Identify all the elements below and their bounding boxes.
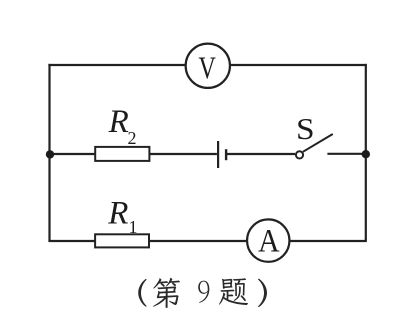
svg-text:S: S — [296, 111, 315, 146]
caption (第 9 题) — [138, 278, 267, 308]
wire: right vertical rail — [365, 64, 367, 241]
caption glyph （ — [138, 279, 146, 307]
node: right junction dot — [362, 150, 370, 158]
voltmeter V — [186, 44, 230, 88]
svg-text:R: R — [107, 195, 128, 231]
resistor R2 (box) — [95, 147, 149, 161]
svg-text:1: 1 — [129, 217, 138, 237]
wire: R2 to battery positive plate — [150, 153, 217, 155]
svg-text:R: R — [108, 104, 129, 140]
battery cell: short negative plate — [225, 149, 227, 160]
wire: top-left horizontal (left corner to voltmeter) — [48, 64, 185, 66]
switch S: pivot circle — [296, 151, 303, 158]
label R1 — [107, 195, 137, 237]
wire: bottom-left horizontal (left corner to R1) — [48, 240, 95, 242]
svg-text:2: 2 — [128, 128, 137, 148]
wire: ammeter to right corner — [289, 240, 366, 242]
caption glyph 9 — [198, 281, 209, 303]
resistor R1 (box) — [95, 234, 149, 247]
switch S: lever arm — [303, 134, 333, 152]
wire: top-right horizontal (voltmeter to right corner) — [230, 64, 366, 66]
caption glyph 第 — [153, 278, 180, 308]
svg-text:V: V — [198, 51, 216, 86]
wire: R1 to ammeter — [149, 240, 247, 242]
wire: left vertical rail — [48, 64, 50, 241]
wire: middle branch, left node to R2 — [50, 153, 96, 155]
caption glyph ） — [258, 279, 267, 307]
label R2 — [108, 104, 137, 148]
ammeter A — [247, 219, 289, 261]
caption glyph 题 — [219, 278, 248, 305]
wire: battery negative plate to switch pivot — [226, 153, 295, 155]
wire: switch to right node — [327, 153, 365, 155]
battery cell: long positive plate — [217, 141, 219, 168]
node: left junction dot — [46, 150, 54, 158]
svg-text:A: A — [258, 222, 280, 259]
